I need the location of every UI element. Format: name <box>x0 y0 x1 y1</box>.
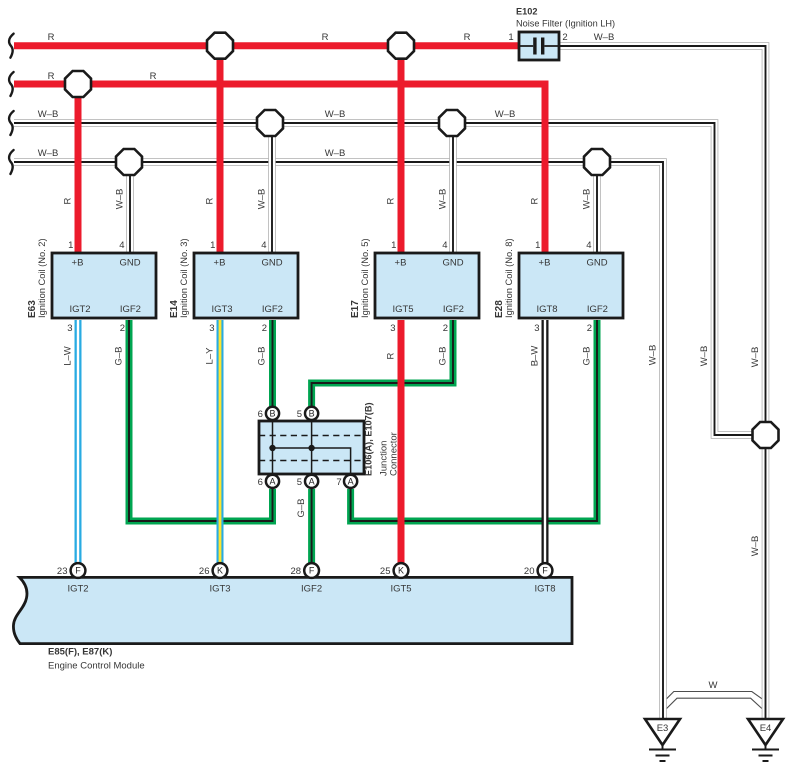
svg-text:B: B <box>269 409 275 419</box>
svg-text:E4: E4 <box>760 723 772 734</box>
svg-text:R: R <box>530 197 541 204</box>
label E17 <box>350 300 361 318</box>
wire W-B row4 to coil E63 GND <box>126 162 134 256</box>
label IGT5 in ECM <box>390 584 411 595</box>
wire label W–B <box>495 109 516 120</box>
svg-text:L–Y: L–Y <box>205 347 216 365</box>
svg-text:IGF2: IGF2 <box>120 304 141 315</box>
svg-text:E3: E3 <box>657 723 669 734</box>
svg-text:IGF2: IGF2 <box>262 304 283 315</box>
svg-text:G–B: G–B <box>114 346 125 365</box>
pin 2 of E17 <box>443 323 448 334</box>
pin number 5 top <box>297 409 302 420</box>
label IGT8 in ECM <box>534 584 555 595</box>
pin number 6 bottom <box>258 477 263 488</box>
wire R row2 to coil E63 +B <box>75 84 82 256</box>
svg-text:G–B: G–B <box>257 346 268 365</box>
svg-text:2: 2 <box>262 323 267 334</box>
pin 1 of E102 <box>508 32 513 43</box>
wire label W–B rotated <box>648 345 659 366</box>
svg-text:+B: +B <box>72 258 84 269</box>
wire label W–B <box>594 32 615 43</box>
svg-text:25: 25 <box>380 566 391 577</box>
noise filter E102 box <box>519 32 559 60</box>
svg-text:W–B: W–B <box>582 189 593 210</box>
ignition coil E28 box <box>519 253 623 318</box>
label Junction Connector line2 <box>389 432 400 476</box>
label IGF2 in ECM <box>301 584 322 595</box>
break symbol row2 <box>9 72 14 96</box>
svg-text:W–B: W–B <box>594 32 615 43</box>
label E102 <box>516 7 537 17</box>
svg-text:3: 3 <box>209 323 214 334</box>
wire R coil E17 IGT5 to ECM pin 25 <box>398 320 405 565</box>
pin 1 of E28 <box>535 240 540 251</box>
svg-text:Noise Filter (Ignition LH): Noise Filter (Ignition LH) <box>516 19 615 29</box>
wire label L–W rotated <box>63 346 74 366</box>
wire R bus row2 to coil E28 +B <box>14 84 545 256</box>
ECM pin 23 (F) IGT2 <box>71 563 86 578</box>
wire W ground link between E3 and E4 <box>667 692 763 709</box>
pin 4 of E63 <box>119 240 124 251</box>
svg-text:F: F <box>309 566 315 576</box>
svg-text:W–B: W–B <box>750 347 761 368</box>
svg-text:1: 1 <box>391 240 396 251</box>
svg-text:20: 20 <box>524 566 535 577</box>
label E106(A), E107(B) <box>364 402 374 476</box>
pin 1 of E17 <box>391 240 396 251</box>
svg-text:GND: GND <box>442 258 463 269</box>
ECM pin 20 (F) IGT8 <box>538 563 553 578</box>
pin 3 of E28 <box>534 323 539 334</box>
wire R row1 to coil E17 +B <box>398 46 405 256</box>
junction connector dashed rows <box>259 436 364 461</box>
wire label G–B rotated <box>296 498 307 517</box>
wire label W–B rotated <box>699 346 710 367</box>
svg-text:Ignition Coil (No. 2): Ignition Coil (No. 2) <box>37 238 47 318</box>
svg-text:A: A <box>309 477 315 487</box>
svg-text:IGT8: IGT8 <box>534 584 555 595</box>
ignition coil E14 box <box>194 253 298 318</box>
wire label R rotated <box>530 197 541 204</box>
wire label W–B <box>325 109 346 120</box>
svg-text:R: R <box>150 71 157 82</box>
pin 3 of E14 <box>209 323 214 334</box>
wire label W–B rotated <box>115 189 126 210</box>
svg-text:W–B: W–B <box>38 109 59 120</box>
svg-text:IGT3: IGT3 <box>211 304 232 315</box>
wire label W–B rotated <box>438 189 449 210</box>
svg-text:W–B: W–B <box>438 189 449 210</box>
pin 2 of E28 <box>587 323 592 334</box>
wire label R <box>48 71 55 82</box>
wire label G–B rotated <box>257 346 268 365</box>
svg-text:3: 3 <box>67 323 72 334</box>
svg-text:2: 2 <box>562 32 567 43</box>
svg-text:G–B: G–B <box>296 498 307 517</box>
svg-text:26: 26 <box>199 566 210 577</box>
wire label W–B rotated <box>257 189 268 210</box>
ECM pin 26 (K) IGT3 <box>213 563 228 578</box>
wire label B–W rotated <box>530 346 541 367</box>
wire label R rotated <box>63 197 74 204</box>
break symbol row1 <box>9 34 14 58</box>
svg-text:R: R <box>205 197 216 204</box>
pin 1 of E63 <box>68 240 73 251</box>
svg-text:2: 2 <box>587 323 592 334</box>
svg-text:B–W: B–W <box>530 346 541 367</box>
ECM pin 25 (K) IGT5 <box>394 563 409 578</box>
svg-text:IGT2: IGT2 <box>69 304 90 315</box>
label E14 <box>169 300 180 318</box>
pin number 5 bottom <box>297 477 302 488</box>
pin 2 of E63 <box>120 323 125 334</box>
wire label R <box>464 32 471 43</box>
svg-text:GND: GND <box>261 258 282 269</box>
wire G-B coil E63 IGF2 to junction 6A <box>129 320 273 521</box>
svg-text:28: 28 <box>291 566 302 577</box>
wire L-W coil E63 IGT2 to ECM pin 23 <box>75 320 82 565</box>
svg-text:R: R <box>464 32 471 43</box>
svg-text:L–W: L–W <box>63 346 74 366</box>
wire W-B row3 to coil E17 GND <box>449 123 457 256</box>
svg-text:1: 1 <box>68 240 73 251</box>
svg-text:B: B <box>309 409 315 419</box>
ignition coil E63 box <box>52 253 156 318</box>
label Ignition Coil (No. 2) <box>37 238 47 318</box>
ECM pin 28 (F) IGF2 <box>304 563 319 578</box>
label E28 <box>494 300 505 318</box>
pin number 7 bottom <box>336 477 341 488</box>
wire label R rotated <box>386 352 397 359</box>
pin 1 of E14 <box>210 240 215 251</box>
label Ignition Coil (No. 8) <box>504 238 514 318</box>
svg-text:Ignition Coil (No. 8): Ignition Coil (No. 8) <box>504 238 514 318</box>
ground E3 <box>645 719 680 761</box>
svg-text:1: 1 <box>535 240 540 251</box>
pin 2 of E14 <box>262 323 267 334</box>
label Noise Filter (Ignition LH) <box>516 19 615 29</box>
label Ignition Coil (No. 3) <box>179 238 189 318</box>
svg-text:R: R <box>386 352 397 359</box>
connector octagon row1 b <box>388 33 414 59</box>
wire label G–B rotated <box>114 346 125 365</box>
wire G-B junction 5A to ECM IGF2 pin 28 <box>308 489 315 565</box>
svg-text:F: F <box>542 566 548 576</box>
svg-text:2: 2 <box>120 323 125 334</box>
svg-text:R: R <box>386 197 397 204</box>
wire B-W coil E28 IGT8 to ECM pin 20 <box>542 320 549 565</box>
svg-text:Ignition Coil (No. 3): Ignition Coil (No. 3) <box>179 238 189 318</box>
connector octagon row3 a <box>257 110 283 136</box>
connector octagon row4 b <box>584 149 610 175</box>
svg-text:W–B: W–B <box>648 345 659 366</box>
junction pin 5B <box>305 407 318 420</box>
wire R bus row1 <box>14 42 519 49</box>
wire label R rotated <box>386 197 397 204</box>
connector octagon row3 b <box>439 110 465 136</box>
junction pin 7A <box>344 475 357 488</box>
svg-text:GND: GND <box>586 258 607 269</box>
svg-text:+B: +B <box>539 258 551 269</box>
svg-text:4: 4 <box>261 240 266 251</box>
svg-text:K: K <box>217 566 223 576</box>
svg-text:A: A <box>269 477 275 487</box>
wire G-B coil E28 IGF2 to junction 7A <box>351 320 597 521</box>
pin 2 of E102 <box>562 32 567 43</box>
svg-text:Engine Control Module: Engine Control Module <box>48 661 145 672</box>
svg-text:R: R <box>63 197 74 204</box>
pin 3 of E63 <box>67 323 72 334</box>
label E85(F), E87(K) <box>48 647 112 658</box>
svg-text:4: 4 <box>442 240 447 251</box>
svg-text:E85(F), E87(K): E85(F), E87(K) <box>48 647 112 658</box>
svg-text:W–B: W–B <box>699 346 710 367</box>
wire W-B bus row3 to right side <box>14 123 754 435</box>
svg-text:6: 6 <box>258 409 263 420</box>
wire label R <box>48 32 55 43</box>
junction pin 6A <box>266 475 279 488</box>
wire label W–B rotated <box>750 347 761 368</box>
junction pin 5A <box>305 475 318 488</box>
svg-text:GND: GND <box>119 258 140 269</box>
label Ignition Coil (No. 5) <box>360 238 370 318</box>
wire W-B row4 to coil E28 GND <box>593 162 601 256</box>
svg-text:K: K <box>398 566 404 576</box>
junction connector internal links <box>269 421 350 474</box>
svg-text:1: 1 <box>508 32 513 43</box>
ground E4 <box>748 719 783 761</box>
svg-text:G–B: G–B <box>582 346 593 365</box>
svg-text:W–B: W–B <box>325 109 346 120</box>
svg-text:W–B: W–B <box>750 536 761 557</box>
wire label W ground link <box>709 680 718 691</box>
wire label W–B <box>325 148 346 159</box>
svg-text:E106(A), E107(B): E106(A), E107(B) <box>364 402 374 476</box>
label E63 <box>27 300 38 318</box>
connector octagon row2 <box>65 71 91 97</box>
wire label R rotated <box>205 197 216 204</box>
wire label W–B <box>38 148 59 159</box>
pin 4 of E14 <box>261 240 266 251</box>
svg-text:W–B: W–B <box>38 148 59 159</box>
wire label W–B rotated <box>582 189 593 210</box>
svg-text:R: R <box>48 71 55 82</box>
svg-text:4: 4 <box>119 240 124 251</box>
svg-text:IGT3: IGT3 <box>209 584 230 595</box>
svg-text:3: 3 <box>534 323 539 334</box>
svg-text:W–B: W–B <box>325 148 346 159</box>
label IGT3 in ECM <box>209 584 230 595</box>
wire W-B from noise filter to ground E4 <box>559 46 766 719</box>
svg-text:R: R <box>322 32 329 43</box>
pin 4 of E28 <box>586 240 591 251</box>
svg-text:W–B: W–B <box>115 189 126 210</box>
svg-text:5: 5 <box>297 409 302 420</box>
svg-text:IGF2: IGF2 <box>301 584 322 595</box>
wire label G–B rotated <box>438 346 449 365</box>
junction pin 6B <box>266 407 279 420</box>
svg-text:3: 3 <box>390 323 395 334</box>
wire R row1 to coil E14 +B <box>217 46 224 256</box>
label Junction Connector <box>379 441 390 476</box>
svg-text:IGF2: IGF2 <box>587 304 608 315</box>
svg-text:W: W <box>709 680 718 691</box>
wire W-B bus row4 to ground E3 <box>14 162 663 719</box>
wire label L–Y rotated <box>205 347 216 365</box>
svg-text:R: R <box>48 32 55 43</box>
pin number 6 top <box>258 409 263 420</box>
break symbol row3 <box>9 111 14 135</box>
svg-text:1: 1 <box>210 240 215 251</box>
wire W-B row3 to coil E14 GND <box>268 123 276 256</box>
label IGT2 in ECM <box>67 584 88 595</box>
svg-text:7: 7 <box>336 477 341 488</box>
svg-text:5: 5 <box>297 477 302 488</box>
label Engine Control Module <box>48 661 145 672</box>
wire G-B coil E17 IGF2 to junction 5B <box>312 320 453 409</box>
svg-text:2: 2 <box>443 323 448 334</box>
svg-text:A: A <box>348 477 354 487</box>
engine control module box <box>13 577 572 643</box>
pin 4 of E17 <box>442 240 447 251</box>
svg-text:E102: E102 <box>516 7 537 17</box>
svg-text:IGT8: IGT8 <box>536 304 557 315</box>
wire label W–B <box>38 109 59 120</box>
wire label R <box>150 71 157 82</box>
break symbol row4 <box>9 150 14 174</box>
svg-text:+B: +B <box>214 258 226 269</box>
junction connector E106(A) E107(B) box <box>259 421 364 474</box>
wire label W–B rotated <box>750 536 761 557</box>
connector octagon row1 a <box>207 33 233 59</box>
pin 3 of E17 <box>390 323 395 334</box>
svg-text:IGT2: IGT2 <box>67 584 88 595</box>
svg-text:4: 4 <box>586 240 591 251</box>
capacitor symbol inside E102 <box>519 38 559 55</box>
wire label G–B rotated <box>582 346 593 365</box>
svg-text:IGT5: IGT5 <box>390 584 411 595</box>
svg-text:Connector: Connector <box>389 432 400 476</box>
wire L-Y coil E14 IGT3 to ECM pin 26 <box>217 320 224 565</box>
ignition coil E17 box <box>375 253 479 318</box>
wire label R <box>322 32 329 43</box>
svg-text:W–B: W–B <box>495 109 516 120</box>
svg-text:+B: +B <box>395 258 407 269</box>
connector octagon row4 a <box>116 149 142 175</box>
svg-text:W–B: W–B <box>257 189 268 210</box>
wire G-B coil E14 IGF2 to junction 6B <box>269 320 276 409</box>
svg-text:23: 23 <box>57 566 68 577</box>
svg-text:F: F <box>75 566 81 576</box>
connector octagon right side <box>753 422 779 448</box>
svg-text:IGF2: IGF2 <box>443 304 464 315</box>
svg-text:G–B: G–B <box>438 346 449 365</box>
svg-text:6: 6 <box>258 477 263 488</box>
svg-text:IGT5: IGT5 <box>392 304 413 315</box>
svg-text:Ignition Coil (No. 5): Ignition Coil (No. 5) <box>360 238 370 318</box>
